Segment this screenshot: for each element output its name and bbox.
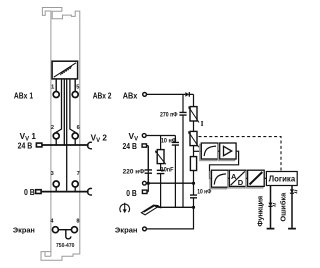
svg-text:8: 8 — [76, 218, 79, 224]
svg-text:270 пФ: 270 пФ — [160, 112, 178, 119]
svg-text:ABx 1: ABx 1 — [14, 91, 33, 101]
svg-text:7: 7 — [77, 171, 80, 177]
svg-text:Ошибка: Ошибка — [278, 192, 287, 222]
svg-text:5: 5 — [76, 85, 79, 91]
svg-text:Экран: Экран — [13, 225, 35, 234]
svg-text:Функция: Функция — [255, 196, 264, 227]
svg-text:0 В: 0 В — [126, 189, 137, 198]
svg-text:0 В: 0 В — [24, 188, 35, 197]
svg-text:750-470: 750-470 — [56, 243, 74, 249]
svg-text:10 нФ: 10 нФ — [161, 138, 177, 145]
svg-text:D: D — [238, 178, 244, 187]
svg-text:24 В: 24 В — [123, 142, 137, 151]
svg-text:Экран: Экран — [115, 225, 138, 234]
svg-text:Логика: Логика — [269, 175, 296, 184]
svg-text:10 нФ: 10 нФ — [197, 189, 212, 196]
svg-text:24 В: 24 В — [18, 141, 33, 150]
svg-text:6: 6 — [77, 125, 80, 131]
svg-text:ABx: ABx — [123, 91, 138, 101]
svg-text:A: A — [231, 172, 237, 181]
svg-text:220 нФ: 220 нФ — [123, 168, 146, 175]
svg-text:3: 3 — [51, 171, 54, 177]
svg-text:10nF: 10nF — [161, 166, 174, 173]
svg-text:I: I — [201, 119, 204, 128]
svg-text:1: 1 — [51, 85, 54, 91]
svg-text:2: 2 — [51, 125, 54, 131]
svg-text:ABx 2: ABx 2 — [93, 91, 112, 101]
